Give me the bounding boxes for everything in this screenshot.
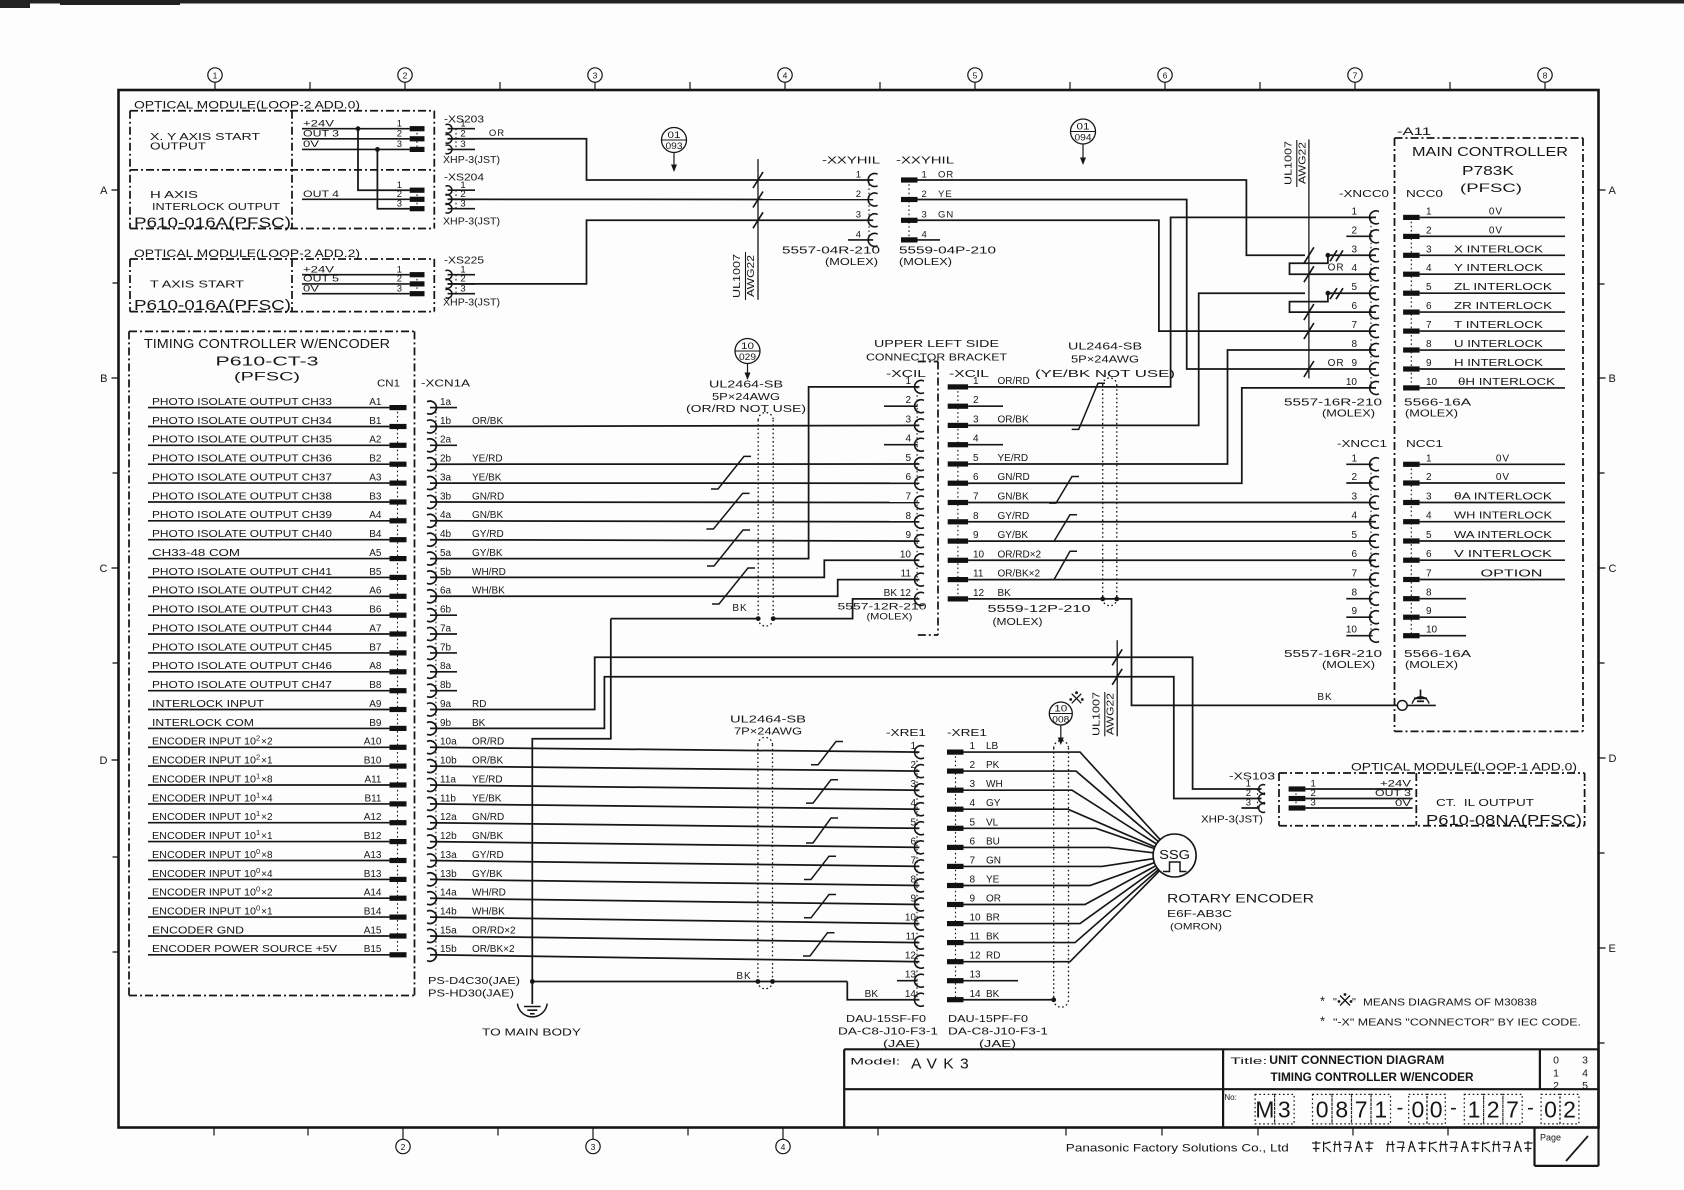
svg-text:8: 8 (1426, 588, 1432, 599)
svg-text:-: - (1527, 1097, 1534, 1119)
svg-text:(MOLEX): (MOLEX) (1322, 409, 1375, 420)
svg-text:7P×24AWG: 7P×24AWG (734, 726, 802, 738)
svg-text:P610-016A(PFSC): P610-016A(PFSC) (134, 298, 291, 314)
right coordinate letters A-E (1599, 189, 1606, 191)
svg-text:P610-016A(PFSC): P610-016A(PFSC) (134, 215, 291, 231)
left coordinate letters A-D (112, 189, 119, 191)
svg-text:OR/BK×2: OR/BK×2 (998, 569, 1041, 580)
svg-text:OUT 4: OUT 4 (303, 189, 339, 200)
svg-text:E: E (1609, 943, 1616, 955)
svg-text:1: 1 (1351, 206, 1357, 217)
svg-text:2: 2 (1351, 472, 1357, 483)
svg-text:Model:: Model: (850, 1057, 900, 1068)
svg-text:4a: 4a (440, 510, 452, 521)
svg-text:3: 3 (1278, 1097, 1291, 1123)
svg-text:-XS103: -XS103 (1229, 772, 1276, 783)
svg-text:GY/RD: GY/RD (998, 511, 1030, 522)
svg-text:GY/RD: GY/RD (472, 529, 504, 540)
reference 10/008 with asterisk (1049, 702, 1072, 725)
svg-text:3: 3 (397, 139, 402, 150)
svg-text:3: 3 (460, 283, 465, 294)
svg-text:12a: 12a (440, 812, 457, 823)
svg-text:5566-16A: 5566-16A (1404, 649, 1472, 660)
top coordinate circles 1-8 (208, 68, 222, 82)
wire 0V down to XS204 pin3 (377, 149, 409, 208)
svg-text:1b: 1b (440, 416, 452, 427)
svg-text:D: D (1609, 753, 1617, 765)
wire drain to XRE1-14 (756, 979, 761, 984)
svg-text:XHP-3(JST): XHP-3(JST) (443, 298, 500, 309)
chassis ground symbol controller (1420, 690, 1422, 700)
svg-text:No:: No: (1224, 1093, 1236, 1102)
svg-text:1: 1 (1426, 453, 1432, 464)
svg-text:ENCODER INPUT 100×2: ENCODER INPUT 100×2 (152, 885, 273, 899)
svg-text:3b: 3b (440, 491, 452, 502)
svg-text:-XXYHIL: -XXYHIL (822, 155, 880, 167)
svg-text:B3: B3 (369, 491, 382, 502)
slash marks on XNCC0 wires (1304, 247, 1314, 263)
svg-text:3: 3 (1246, 798, 1251, 809)
cable UL2464-SB 5P 24AWG left of XCIL (757, 420, 759, 619)
junction dot XNCC0-3 OR (1326, 253, 1331, 258)
svg-text:B6: B6 (369, 605, 382, 616)
svg-text:BK: BK (1317, 692, 1332, 703)
svg-text:X INTERLOCK: X INTERLOCK (1454, 244, 1543, 255)
wire OUT 4 row module1 (302, 198, 410, 200)
svg-text:8: 8 (905, 511, 911, 522)
svg-text:10: 10 (973, 549, 985, 560)
svg-text:GN/RD: GN/RD (998, 472, 1030, 483)
svg-text:PHOTO ISOLATE OUTPUT CH33: PHOTO ISOLATE OUTPUT CH33 (152, 397, 333, 408)
svg-text:3: 3 (973, 414, 979, 425)
svg-text:6: 6 (1163, 71, 1168, 81)
svg-text:VL: VL (986, 817, 999, 828)
double slash XNCC0-3 (1330, 250, 1337, 261)
svg-text:θH INTERLOCK: θH INTERLOCK (1458, 377, 1555, 388)
svg-text:GN/BK: GN/BK (472, 510, 503, 521)
svg-text:GY/BK: GY/BK (998, 530, 1029, 541)
svg-text:B15: B15 (364, 944, 382, 955)
svg-text:YE/RD: YE/RD (998, 453, 1029, 464)
svg-text:13a: 13a (440, 850, 457, 861)
svg-text:9: 9 (1351, 358, 1357, 369)
svg-text:BR: BR (986, 913, 1000, 924)
svg-text:6: 6 (1426, 549, 1432, 560)
svg-text:AVK3: AVK3 (911, 1056, 975, 1073)
wire OR XXYHIL-1 to XNCC0-3 (918, 180, 1306, 255)
svg-text:B7: B7 (369, 642, 382, 653)
svg-text:0V: 0V (1489, 206, 1503, 217)
stub XCIL-2 male (968, 405, 1003, 407)
reference 10/029 (735, 339, 760, 364)
svg-text:GY/RD: GY/RD (472, 850, 504, 861)
svg-text:14: 14 (970, 989, 982, 1000)
svg-text:4: 4 (1426, 511, 1432, 522)
cable UL2464-SB 7P 24AWG at XRE1 (757, 745, 759, 982)
svg-text:1: 1 (213, 71, 218, 81)
svg-text:4: 4 (973, 434, 979, 445)
svg-text:9: 9 (905, 530, 911, 541)
svg-text:B: B (1609, 373, 1616, 385)
svg-text:2: 2 (460, 128, 465, 139)
svg-text:OPTICAL MODULE(LOOP-2 ADD.0): OPTICAL MODULE(LOOP-2 ADD.0) (134, 100, 360, 112)
svg-text:(JAE): (JAE) (979, 1038, 1016, 1050)
svg-text:PHOTO ISOLATE OUTPUT CH46: PHOTO ISOLATE OUTPUT CH46 (152, 661, 333, 672)
svg-text:H INTERLOCK: H INTERLOCK (1454, 358, 1543, 369)
svg-text:10: 10 (900, 549, 912, 560)
svg-text:WH/BK: WH/BK (472, 907, 505, 918)
svg-text:PHOTO ISOLATE OUTPUT CH41: PHOTO ISOLATE OUTPUT CH41 (152, 567, 333, 578)
svg-text:4b: 4b (440, 529, 452, 540)
svg-text:8: 8 (1351, 339, 1357, 350)
stub XCIL-2 female (884, 405, 918, 407)
svg-text:PHOTO ISOLATE OUTPUT CH47: PHOTO ISOLATE OUTPUT CH47 (152, 680, 333, 691)
bracket outline dash-dot (918, 361, 938, 363)
svg-text:INTERLOCK OUTPUT: INTERLOCK OUTPUT (152, 201, 281, 213)
svg-text:3: 3 (856, 210, 861, 221)
stub XS103-3 (1241, 807, 1259, 809)
svg-text:GY/BK: GY/BK (472, 548, 503, 559)
svg-text:3: 3 (1426, 492, 1432, 503)
svg-text:2: 2 (401, 1142, 406, 1152)
svg-text:OR/BK×2: OR/BK×2 (472, 944, 515, 955)
svg-text:*: * (1320, 1014, 1325, 1029)
module LOOP-1 pin rows (1289, 786, 1306, 791)
connector CN1 rows with labels (148, 407, 390, 409)
svg-text:4: 4 (910, 798, 916, 809)
svg-text:AWG22: AWG22 (1105, 693, 1117, 735)
svg-text:BK: BK (986, 989, 1000, 1000)
svg-text:13: 13 (970, 970, 982, 981)
svg-text:1: 1 (1374, 1097, 1387, 1123)
wire YE XXYHIL-2 to XNCC0-9 (918, 200, 1377, 370)
connector pins CN of module1 lower (410, 188, 425, 193)
svg-text:OUT 3: OUT 3 (303, 129, 339, 140)
svg-text:5557-04R-210: 5557-04R-210 (782, 246, 881, 257)
svg-text:PHOTO ISOLATE OUTPUT CH35: PHOTO ISOLATE OUTPUT CH35 (152, 435, 333, 446)
svg-text:0V: 0V (1496, 472, 1510, 483)
svg-text:PHOTO ISOLATE OUTPUT CH40: PHOTO ISOLATE OUTPUT CH40 (152, 529, 333, 540)
svg-text:ZR INTERLOCK: ZR INTERLOCK (1454, 301, 1552, 312)
svg-text:10: 10 (1346, 625, 1358, 636)
svg-text:WH/BK: WH/BK (472, 586, 505, 597)
cable bundle line UL1007 AWG22 left (757, 159, 759, 300)
svg-text:6: 6 (970, 836, 976, 847)
wire XCN1A-3a to XCIL-6 YE/BK (430, 482, 919, 484)
svg-text:GN/RD: GN/RD (472, 491, 504, 502)
svg-text:WH INTERLOCK: WH INTERLOCK (1454, 511, 1552, 522)
svg-text:H AXIS: H AXIS (150, 189, 198, 201)
rotary encoder symbol SSG (1153, 834, 1196, 877)
svg-text:ENCODER INPUT 100×1: ENCODER INPUT 100×1 (152, 904, 273, 918)
svg-text:A11: A11 (364, 774, 381, 785)
svg-text:(MOLEX): (MOLEX) (1405, 660, 1458, 671)
svg-text:BK: BK (472, 718, 486, 729)
svg-text:T AXIS START: T AXIS START (150, 278, 245, 290)
svg-text:5: 5 (905, 453, 911, 464)
svg-text:01: 01 (1077, 121, 1090, 131)
svg-text:0: 0 (1430, 1097, 1443, 1123)
svg-text:6: 6 (973, 472, 979, 483)
svg-text:15a: 15a (440, 925, 457, 936)
twisted pair slashes left cable (711, 456, 751, 489)
wire XCN1A-4a to XCIL-8 GN/BK (430, 521, 919, 522)
svg-text:A3: A3 (369, 473, 382, 484)
right edge half ticks (1599, 283, 1605, 285)
svg-text:3: 3 (1426, 244, 1432, 255)
stub XXYHIL-4 male (918, 239, 941, 241)
wire XCIL-7 GN/BK to XNCC1-3 (968, 502, 1376, 504)
svg-text:OR/BK: OR/BK (472, 756, 503, 767)
svg-text:5: 5 (910, 817, 916, 828)
svg-text:1: 1 (856, 169, 861, 180)
svg-text:2: 2 (905, 395, 911, 406)
svg-text:15b: 15b (440, 944, 457, 955)
svg-text:C: C (100, 563, 108, 575)
junction dot 0V to XS204-3 (375, 147, 380, 152)
svg-text:MEANS DIAGRAMS OF M30838: MEANS DIAGRAMS OF M30838 (1363, 997, 1537, 1009)
svg-text:10: 10 (741, 341, 754, 351)
svg-text:-: - (1450, 1097, 1457, 1119)
svg-text:SSG: SSG (1159, 847, 1190, 862)
svg-text:(OMRON): (OMRON) (1170, 922, 1222, 933)
svg-text:A5: A5 (369, 548, 382, 559)
svg-text:14a: 14a (440, 888, 457, 899)
wire 0V row module2 (302, 293, 410, 295)
svg-text:OR/RD: OR/RD (472, 737, 504, 748)
svg-text:10: 10 (1346, 377, 1358, 388)
wire OR XS203-2 to XXYHIL-1 (448, 139, 874, 180)
svg-text:4: 4 (1582, 1068, 1588, 1080)
svg-text:A7: A7 (369, 623, 382, 634)
svg-text:BK: BK (736, 971, 751, 982)
svg-text:": " (1352, 997, 1356, 1009)
svg-text:PHOTO ISOLATE OUTPUT CH44: PHOTO ISOLATE OUTPUT CH44 (152, 623, 333, 634)
svg-text:2: 2 (397, 129, 402, 140)
svg-text:DAU-15SF-F0: DAU-15SF-F0 (846, 1013, 926, 1025)
svg-text:6: 6 (910, 836, 916, 847)
svg-text:OR: OR (489, 128, 505, 139)
svg-text:5: 5 (1582, 1080, 1588, 1092)
svg-text:UL2464-SB: UL2464-SB (730, 714, 806, 726)
reference 01/093 (662, 128, 687, 153)
svg-text:OR: OR (1328, 358, 1345, 369)
stub XRE1-13 male (964, 980, 1019, 982)
svg-text:YE/BK: YE/BK (472, 793, 502, 804)
svg-text:PHOTO ISOLATE OUTPUT CH36: PHOTO ISOLATE OUTPUT CH36 (152, 454, 333, 465)
svg-text:2: 2 (1563, 1097, 1576, 1123)
svg-text:XHP-3(JST): XHP-3(JST) (1201, 815, 1263, 826)
svg-text:YE/RD: YE/RD (472, 774, 503, 785)
svg-text:-XXYHIL: -XXYHIL (896, 155, 954, 167)
svg-text:A14: A14 (364, 888, 382, 899)
svg-text:ENCODER INPUT 100×8: ENCODER INPUT 100×8 (152, 847, 273, 861)
svg-text:9: 9 (1351, 606, 1357, 617)
connector pins CN of module2 (410, 272, 425, 277)
svg-text:UNIT CONNECTION DIAGRAM: UNIT CONNECTION DIAGRAM (1269, 1053, 1444, 1067)
svg-text:PHOTO ISOLATE OUTPUT CH37: PHOTO ISOLATE OUTPUT CH37 (152, 473, 333, 484)
svg-text:13: 13 (905, 970, 917, 981)
svg-text:OPTION: OPTION (1481, 569, 1543, 580)
wire XCN1A-4b to XCIL-9 GY/RD (430, 540, 919, 541)
svg-text:5559-04P-210: 5559-04P-210 (899, 246, 997, 257)
wire OUT 3 row module1 (302, 138, 410, 140)
svg-text:ENCODER INPUT 101×8: ENCODER INPUT 101×8 (152, 771, 273, 785)
wire +24V down to XS204 pin1 (358, 129, 410, 191)
left edge half ticks (113, 282, 119, 284)
svg-text:PS-D4C30(JAE): PS-D4C30(JAE) (428, 975, 520, 987)
svg-text:B8: B8 (369, 680, 382, 691)
svg-text:094: 094 (1075, 132, 1092, 142)
wire XCIL-8 GY/RD to XNCC1-4 (968, 521, 1376, 523)
title block (844, 1048, 1598, 1050)
svg-text:PS-HD30(JAE): PS-HD30(JAE) (428, 988, 514, 1000)
svg-text:11: 11 (970, 932, 981, 943)
svg-text:(MOLEX): (MOLEX) (899, 257, 952, 268)
svg-text:RD: RD (472, 699, 486, 710)
connector -XCN1A female contacts (435, 408, 437, 955)
svg-text:PHOTO ISOLATE OUTPUT CH39: PHOTO ISOLATE OUTPUT CH39 (152, 510, 333, 521)
svg-text:(MOLEX): (MOLEX) (1322, 660, 1375, 671)
svg-text:8b: 8b (440, 680, 452, 691)
svg-text:2: 2 (1426, 472, 1432, 483)
svg-text:RD: RD (986, 951, 1000, 962)
reference 01/094 (1071, 119, 1096, 144)
svg-text:1: 1 (1426, 206, 1432, 217)
svg-text:029: 029 (739, 352, 756, 362)
junction dot drain to XRE1 shield (530, 979, 535, 984)
svg-text:B4: B4 (369, 529, 382, 540)
svg-text:4: 4 (1351, 263, 1357, 274)
bottom coordinate circles 2-4 (396, 1139, 410, 1153)
svg-text:8: 8 (970, 875, 976, 886)
svg-text:OR: OR (938, 169, 954, 180)
svg-text:(JAE): (JAE) (883, 1038, 920, 1050)
svg-text:12b: 12b (440, 831, 457, 842)
svg-text:10: 10 (1054, 703, 1067, 713)
svg-text:10b: 10b (440, 756, 457, 767)
svg-text:9: 9 (973, 530, 979, 541)
page frame (119, 90, 1599, 1128)
svg-text:1a: 1a (440, 397, 452, 408)
svg-text:4: 4 (922, 229, 927, 240)
page box (1533, 1128, 1535, 1166)
wire XCIL-6 GN/RD to XNCC0-10 (968, 388, 1376, 483)
svg-text:7: 7 (1426, 320, 1432, 331)
svg-text:0V: 0V (1489, 225, 1503, 236)
cable bundle line UL1007 AWG22 middle (1116, 640, 1118, 736)
svg-text:10: 10 (1426, 625, 1438, 636)
svg-text:ENCODER GND: ENCODER GND (152, 925, 244, 936)
svg-text:8: 8 (973, 511, 979, 522)
wire XCN1A-2b to XCIL-5 YE/RD (430, 463, 919, 465)
svg-text:7: 7 (910, 855, 916, 866)
svg-text:5: 5 (1426, 282, 1432, 293)
svg-text:ROTARY ENCODER: ROTARY ENCODER (1167, 892, 1314, 906)
svg-text:(PFSC): (PFSC) (1460, 181, 1522, 195)
svg-text:P610-08NA(PFSC): P610-08NA(PFSC) (1426, 813, 1582, 829)
svg-text:5: 5 (970, 817, 976, 828)
wire RD XCN1A-9a to XS103-1 (430, 657, 1262, 789)
svg-text:Title:: Title: (1230, 1056, 1267, 1067)
svg-text:"-X" MEANS "CONNECTOR" BY IEC: "-X" MEANS "CONNECTOR" BY IEC CODE. (1333, 1017, 1581, 1029)
svg-text:WH/RD: WH/RD (472, 888, 506, 899)
svg-text:0V: 0V (1395, 798, 1412, 809)
svg-text:GY: GY (986, 798, 1001, 809)
svg-text:7: 7 (1351, 320, 1357, 331)
svg-text:11: 11 (901, 569, 912, 580)
wire XCN1A-5b to XCIL-10 WH/RD (430, 560, 919, 577)
svg-text:A12: A12 (364, 812, 382, 823)
svg-text:3: 3 (910, 779, 916, 790)
svg-text:NCC0: NCC0 (1406, 188, 1443, 200)
wire GN XXYHIL-3 to XNCC0-7 (918, 220, 1377, 331)
svg-text:1: 1 (922, 169, 927, 180)
svg-text:11a: 11a (440, 774, 456, 785)
svg-text:5: 5 (973, 71, 978, 81)
svg-text:GN: GN (986, 855, 1001, 866)
svg-text:XHP-3(JST): XHP-3(JST) (443, 155, 500, 166)
svg-text:YE: YE (986, 875, 1000, 886)
svg-text:UL1007: UL1007 (1091, 692, 1103, 736)
stub wires XCN1A unused rows (430, 407, 457, 409)
svg-text:3a: 3a (440, 473, 452, 484)
svg-text:7: 7 (970, 855, 976, 866)
svg-text:7: 7 (1351, 569, 1357, 580)
svg-text:PHOTO ISOLATE OUTPUT CH42: PHOTO ISOLATE OUTPUT CH42 (152, 586, 333, 597)
rotary encoder fan wires (964, 752, 1161, 840)
svg-text:-A11: -A11 (1397, 126, 1431, 138)
svg-text:7: 7 (1506, 1097, 1519, 1123)
svg-text:8: 8 (1335, 1097, 1348, 1123)
svg-text:OR/RD×2: OR/RD×2 (998, 549, 1042, 560)
svg-text:ENCODER INPUT 102×1: ENCODER INPUT 102×1 (152, 753, 273, 767)
svg-text:7: 7 (1355, 1097, 1368, 1123)
svg-text:Page: Page (1540, 1133, 1561, 1143)
svg-text:2b: 2b (440, 454, 452, 465)
svg-text:B13: B13 (364, 869, 382, 880)
svg-text:3: 3 (397, 199, 402, 210)
svg-text:4: 4 (783, 71, 788, 81)
svg-text:-: - (1397, 1097, 1404, 1119)
svg-text:A13: A13 (364, 850, 382, 861)
svg-text:0: 0 (1412, 1097, 1425, 1123)
svg-text:1: 1 (1553, 1068, 1559, 1080)
svg-text:10a: 10a (440, 737, 457, 748)
svg-text:5557-16R-210: 5557-16R-210 (1284, 649, 1383, 660)
svg-text:GN/BK: GN/BK (998, 492, 1029, 503)
svg-text:1: 1 (905, 376, 911, 387)
svg-text:4: 4 (1426, 263, 1432, 274)
stub XCIL-4 female (884, 444, 918, 446)
svg-text:BK: BK (884, 588, 898, 599)
svg-text:OR: OR (986, 894, 1001, 905)
wire XRE1-14 BK to shield (964, 999, 1054, 1001)
junction dot XNCC0-5 OR/BK (1326, 291, 1331, 296)
svg-text:3: 3 (970, 779, 976, 790)
svg-text:OR/BK: OR/BK (998, 414, 1029, 425)
svg-text:6: 6 (1426, 301, 1432, 312)
top edge half ticks (309, 82, 311, 90)
svg-text:4: 4 (1351, 511, 1357, 522)
wire XCIL-3 OR/BK to XNCC0-5 (968, 293, 1305, 425)
svg-text:A10: A10 (364, 737, 382, 748)
wire OR loop XNCC0-3 to XNCC0-4 (1290, 255, 1377, 274)
svg-text:2: 2 (1487, 1097, 1500, 1123)
wires XCN1A-10a..15b to XRE1-1..12 (430, 747, 919, 752)
svg-text:3: 3 (1582, 1055, 1588, 1067)
svg-text:BK: BK (986, 932, 1000, 943)
